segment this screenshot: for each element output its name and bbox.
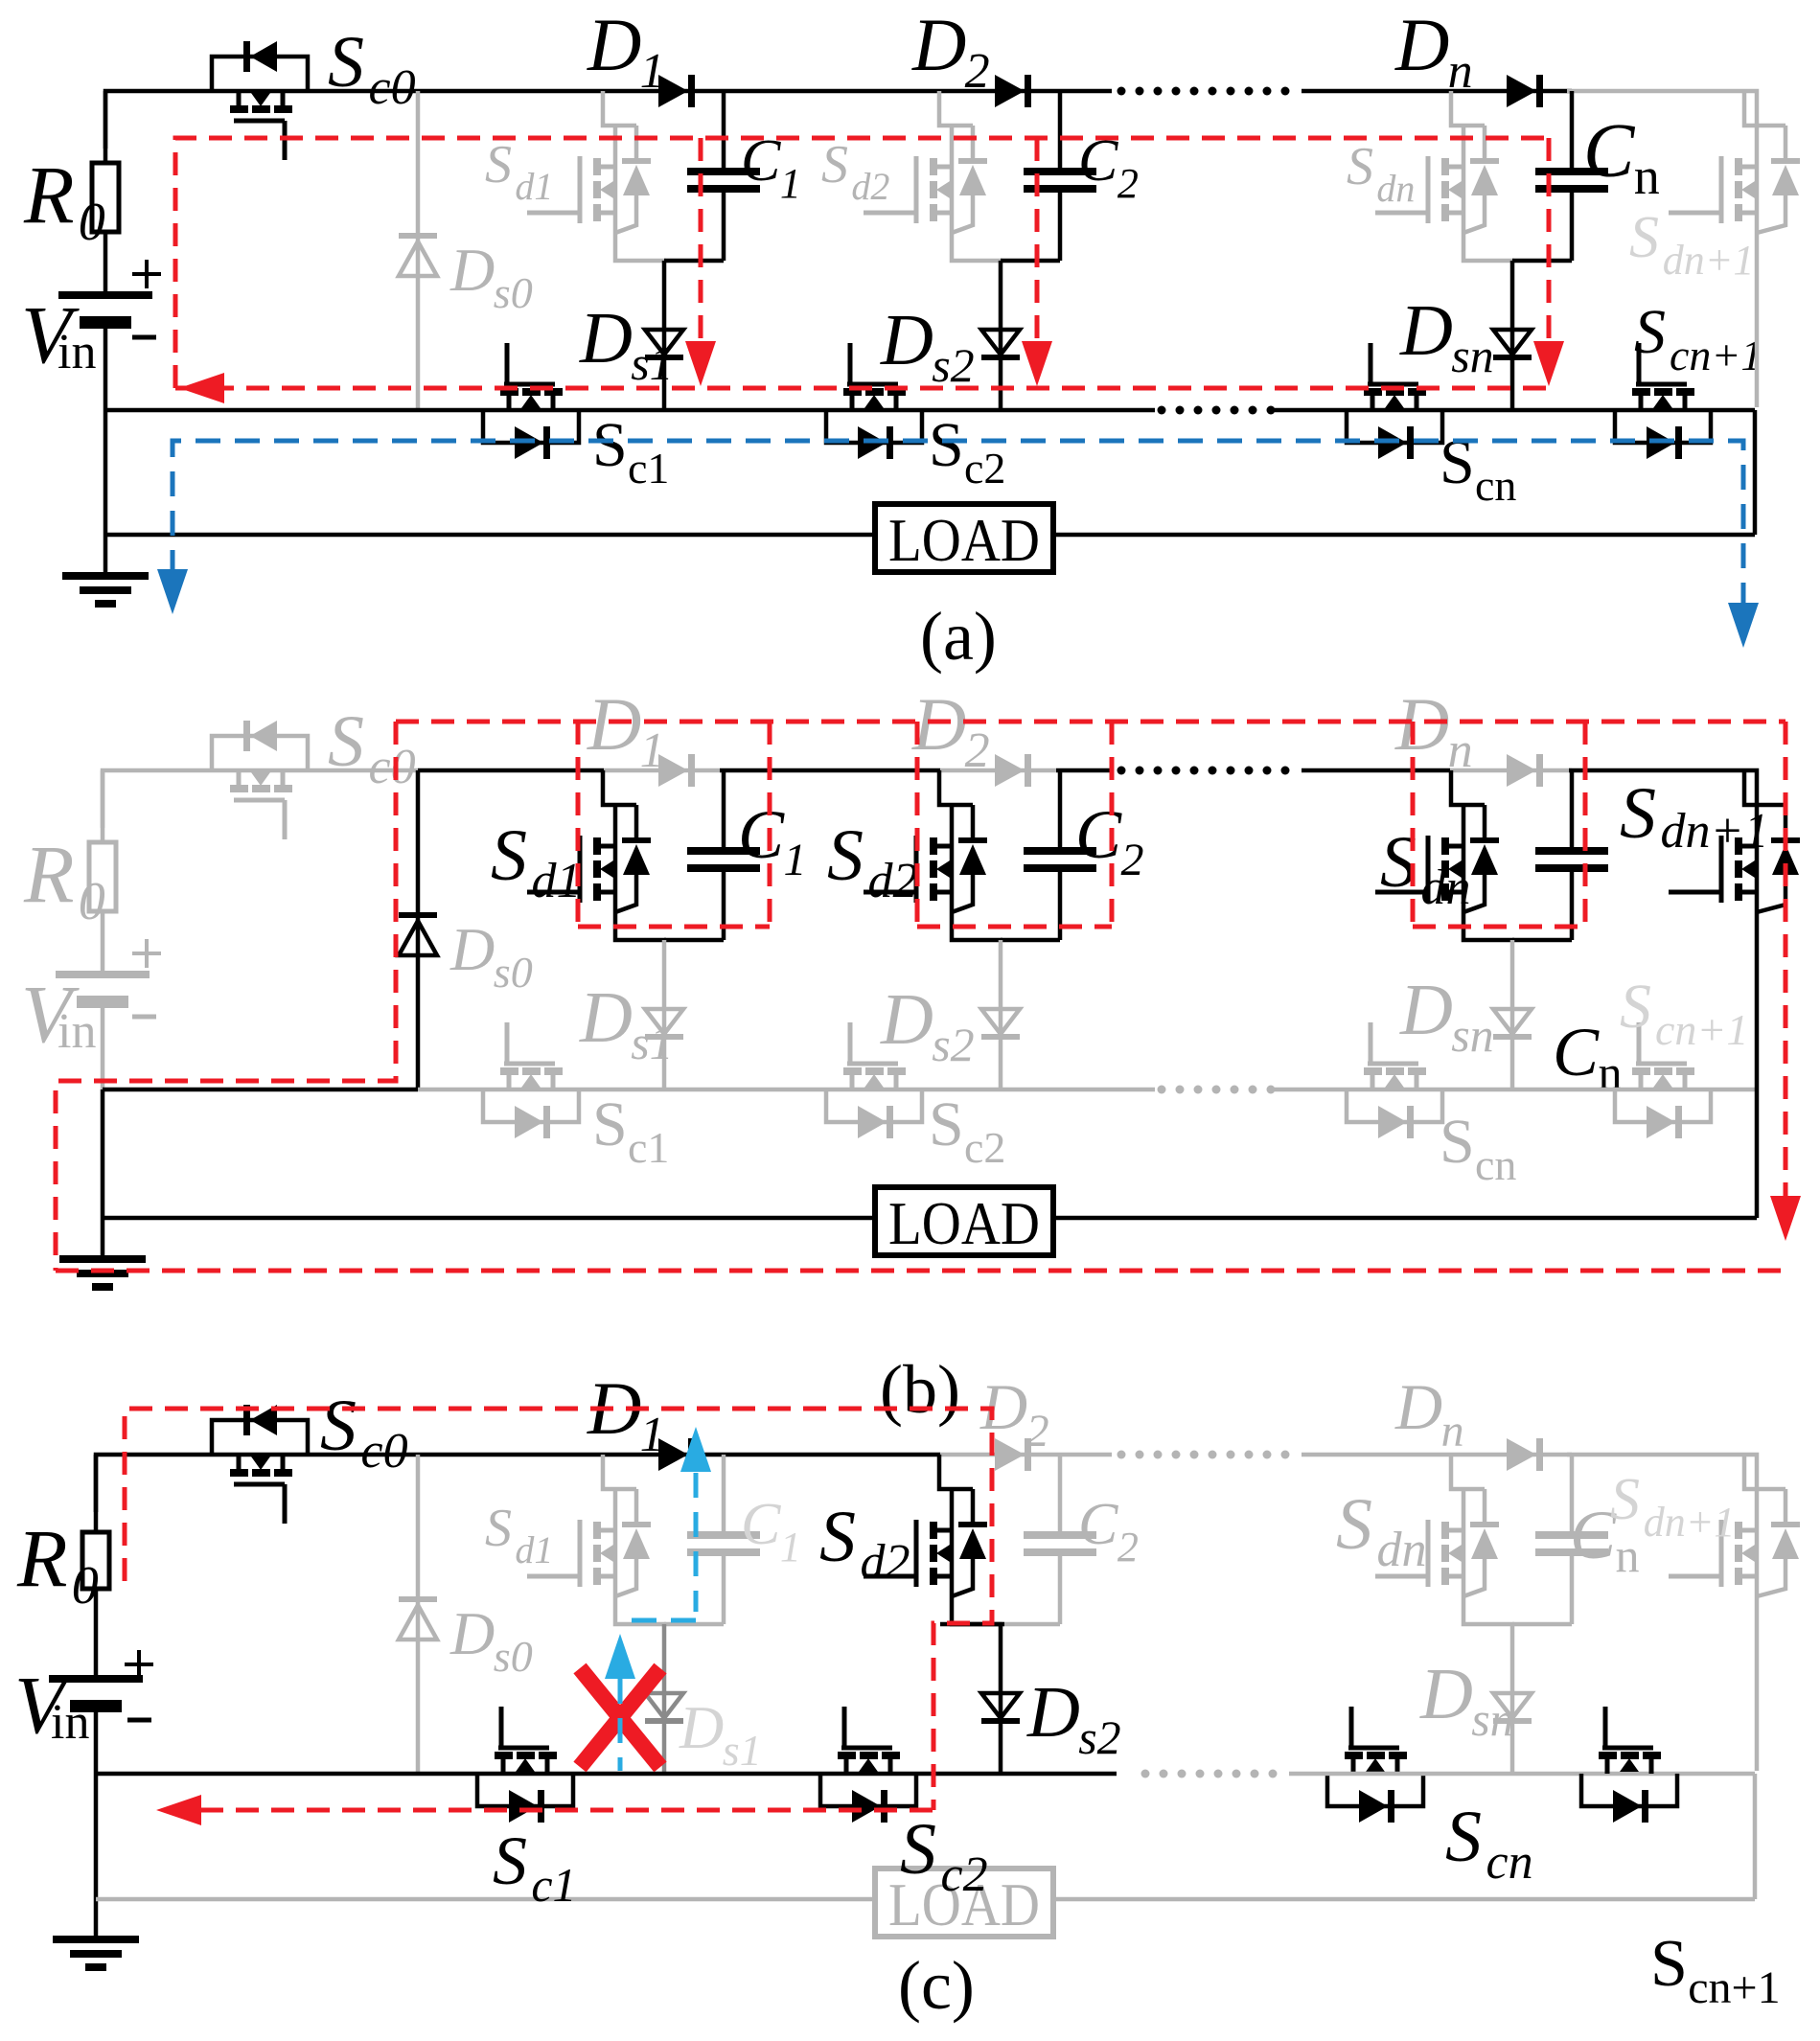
current path red (c loop)	[125, 1409, 992, 1810]
label Vin (b)	[21, 968, 96, 1060]
label minus (b)	[132, 1015, 156, 1020]
current path red arrow (b)	[1770, 1196, 1801, 1241]
svg-text:1: 1	[640, 44, 665, 99]
diode Ds2 (b)	[981, 940, 1020, 1089]
battery Vin (a)	[58, 291, 152, 410]
svg-text:S: S	[592, 1089, 628, 1159]
current path red left (b)	[56, 722, 396, 1271]
transistor Sd1 (c)	[527, 1455, 666, 1624]
transistor Scn (a)	[1347, 343, 1442, 459]
svg-text:D: D	[1399, 970, 1453, 1050]
svg-text:cn: cn	[1475, 1140, 1516, 1189]
svg-text:D: D	[880, 979, 933, 1060]
capacitor Cn (c)	[1535, 1455, 1608, 1624]
svg-text:d1: d1	[515, 1528, 553, 1571]
wire (a top rail gray extension)	[1567, 91, 1757, 127]
svg-text:S: S	[328, 22, 364, 103]
wire (b middle rail black)	[103, 1088, 418, 1092]
current path red bottom line (b)	[56, 1269, 1785, 1273]
transistor Sc2 (c)	[820, 1707, 916, 1823]
svg-text:S: S	[900, 1809, 936, 1890]
wire (c top rail)	[96, 1455, 940, 1512]
label plus (b)	[132, 939, 161, 968]
svg-text:0: 0	[79, 872, 105, 931]
current path red (a bottom)	[175, 386, 1549, 391]
capacitor C2 (b)	[1024, 770, 1096, 940]
label Scn+1 (b)	[1620, 972, 1748, 1054]
svg-text:1: 1	[640, 723, 665, 778]
label Ds1 (b)	[579, 977, 674, 1069]
wire (b top rail gray)	[103, 770, 418, 828]
svg-text:in: in	[51, 1695, 89, 1750]
transistor Sc1 (c)	[477, 1707, 573, 1823]
svg-text:S: S	[1634, 297, 1666, 367]
label Dsn (b)	[1399, 970, 1494, 1062]
svg-text:s1: s1	[723, 1726, 762, 1775]
current path blue (a)	[173, 441, 1743, 608]
current path red arrow left (a)	[179, 373, 224, 403]
label Ds0 (c)	[449, 1599, 533, 1681]
svg-text:D: D	[880, 300, 933, 380]
label R0 (c)	[16, 1512, 99, 1616]
svg-text:2: 2	[1117, 1524, 1139, 1571]
svg-text:D: D	[679, 1693, 724, 1761]
wire (c bottom rail)	[96, 1897, 1755, 1902]
transistor Scn (b)	[1347, 1022, 1442, 1138]
svg-text:n: n	[1448, 44, 1473, 99]
node dots (b middle rail)	[1158, 1086, 1276, 1094]
label Cn (c)	[1570, 1497, 1640, 1582]
label Cn (b)	[1553, 1014, 1623, 1099]
svg-text:R: R	[16, 1512, 68, 1604]
capacitor Cn (b)	[1535, 770, 1608, 940]
svg-text:dn+1: dn+1	[1644, 1499, 1736, 1546]
svg-text:S: S	[320, 1386, 357, 1466]
node dots (a middle rail)	[1158, 406, 1276, 415]
wire (c rail gray seg)	[1302, 1453, 1572, 1457]
diode D1 (b)	[658, 754, 695, 787]
transistor Sd1 (a)	[527, 91, 666, 261]
svg-text:2: 2	[965, 44, 990, 99]
diode Ds1 (c)	[645, 1624, 683, 1774]
current path red arrow (c)	[156, 1795, 201, 1825]
label Sdn (b)	[1380, 822, 1471, 915]
label Ds2 (b)	[880, 979, 975, 1071]
wire (b rail seg2)	[720, 768, 940, 773]
current path red bottom (c)	[200, 1808, 933, 1813]
label Scn (a)	[1440, 427, 1516, 510]
wire (b C2 bottom jog)	[1001, 938, 1060, 943]
label Dn (b)	[1394, 682, 1473, 778]
svg-text:n: n	[1616, 1528, 1640, 1582]
label Sc2 (c)	[900, 1809, 988, 1902]
current path cyan arrow2 (c)	[605, 1634, 635, 1679]
label minus (c)	[127, 1718, 151, 1723]
wire (a top rail)	[105, 91, 1112, 149]
svg-text:S: S	[929, 410, 964, 480]
wire (b top rail black)	[418, 768, 604, 773]
transistor Sc1 (a)	[483, 343, 579, 459]
svg-text:s1: s1	[631, 336, 673, 390]
transistor Scn (c)	[1327, 1707, 1423, 1823]
svg-text:dn: dn	[1377, 1523, 1427, 1577]
svg-text:LOAD: LOAD	[888, 506, 1040, 574]
wire (c rail gray mid)	[940, 1453, 1112, 1457]
label C2 (b)	[1075, 796, 1144, 885]
caption (a)	[920, 598, 997, 675]
svg-text:d1: d1	[532, 854, 582, 908]
svg-text:S: S	[821, 135, 848, 195]
svg-text:1: 1	[784, 835, 807, 885]
svg-text:D: D	[579, 298, 633, 378]
svg-text:C: C	[1583, 109, 1636, 194]
node dots (c top rail)	[1117, 1451, 1290, 1459]
diode Dsn (a)	[1493, 261, 1532, 410]
load box (a)	[875, 504, 1053, 574]
current path red bottom (b 1474)	[1413, 925, 1585, 929]
svg-text:S: S	[1440, 1107, 1475, 1177]
transistor Sd2 (c)	[864, 1455, 1002, 1624]
label D2 (c)	[979, 1370, 1049, 1456]
blocked cross (c)	[580, 1668, 660, 1767]
svg-text:S: S	[1629, 205, 1659, 270]
wire (b middle rail gray right)	[1275, 1088, 1755, 1092]
label Ds0 (b)	[449, 915, 533, 997]
svg-text:C: C	[1075, 796, 1122, 873]
wire (a middle rail right)	[1275, 408, 1755, 413]
diode Dn (c)	[1507, 1438, 1543, 1471]
svg-text:d1: d1	[515, 165, 553, 208]
label Scn+1 (a)	[1634, 297, 1762, 379]
label Ds2 (a)	[880, 300, 975, 392]
diode D2 (c)	[995, 1438, 1031, 1471]
transistor Sd1 (b)	[527, 770, 666, 940]
transistor Sc2 (a)	[826, 343, 922, 459]
transistor Sdn+1 (b)	[1669, 770, 1800, 1218]
svg-text:S: S	[328, 701, 364, 782]
diode Dsn (c)	[1493, 1624, 1532, 1774]
transistor Sc2 (b)	[826, 1022, 922, 1138]
svg-text:dn: dn	[1376, 167, 1415, 210]
svg-text:1: 1	[640, 1408, 665, 1462]
label Vin (a)	[21, 288, 96, 380]
svg-text:S: S	[1620, 972, 1651, 1042]
resistor R0 (c)	[82, 1455, 109, 1675]
svg-text:S: S	[1620, 773, 1656, 854]
svg-text:S: S	[485, 1499, 512, 1558]
svg-text:2: 2	[965, 723, 990, 778]
transistor Sc0 (a)	[212, 41, 308, 160]
resistor R0 (b)	[89, 770, 116, 971]
current path cyan lower (c)	[618, 1679, 623, 1771]
svg-text:c0: c0	[361, 1424, 408, 1479]
label Sdn (c)	[1336, 1484, 1427, 1577]
label C1 (a)	[741, 128, 801, 207]
svg-text:c2: c2	[964, 444, 1005, 493]
label Dsn (c)	[1419, 1654, 1514, 1746]
svg-text:s0: s0	[494, 268, 533, 317]
transistor Sc0 (c)	[212, 1405, 308, 1524]
svg-text:S: S	[819, 1497, 856, 1577]
wire (b rail D1 span)	[604, 768, 720, 773]
svg-text:c0: c0	[369, 60, 416, 115]
current path cyan arrow1 (c)	[680, 1427, 711, 1472]
label C2 (a)	[1078, 128, 1139, 207]
svg-text:D: D	[449, 236, 495, 304]
ground (b)	[59, 1255, 146, 1291]
wire (c middle rail gray)	[1289, 1772, 1755, 1777]
current path red bottom (b 603)	[578, 925, 770, 929]
capacitor C1 (a)	[687, 91, 760, 261]
svg-text:D: D	[449, 915, 495, 983]
svg-text:S: S	[929, 1089, 964, 1159]
svg-text:in: in	[58, 325, 96, 379]
wire (b bottom rail)	[103, 1216, 1757, 1221]
svg-text:c0: c0	[369, 740, 416, 794]
capacitor C2 (a)	[1024, 91, 1096, 261]
label Sdn+1 (a)	[1629, 205, 1754, 284]
battery Vin (b)	[56, 971, 150, 1089]
current path red vertical (b x=803)	[768, 722, 772, 927]
svg-text:s2: s2	[932, 1018, 974, 1071]
svg-text:2: 2	[1117, 160, 1139, 207]
svg-text:C: C	[738, 796, 785, 873]
svg-text:S: S	[1650, 1927, 1688, 2001]
wire (c left lower)	[94, 1774, 99, 1936]
diode D2 (a)	[995, 75, 1031, 107]
label Sd1 (c)	[485, 1499, 553, 1571]
current path red vertical (b x=1160)	[1110, 722, 1115, 927]
diode Ds0 (a)	[399, 91, 437, 410]
svg-text:S: S	[1336, 1484, 1372, 1565]
capacitor C2 (c)	[1024, 1455, 1096, 1624]
wire (b rail right)	[1569, 770, 1757, 807]
svg-text:2: 2	[1121, 835, 1144, 885]
svg-text:D: D	[1399, 290, 1453, 371]
svg-text:(c): (c)	[898, 1947, 975, 2024]
svg-text:dn+1: dn+1	[1663, 237, 1755, 284]
svg-text:D: D	[579, 977, 633, 1058]
current path red drop (a x=1082)	[1035, 138, 1040, 341]
label Sc0 (c)	[320, 1386, 408, 1479]
wire (a left lower)	[104, 410, 108, 572]
svg-text:n: n	[1448, 723, 1473, 778]
label minus (a)	[132, 335, 156, 340]
svg-text:cn+1: cn+1	[1655, 1005, 1748, 1054]
svg-text:S: S	[827, 815, 864, 896]
svg-text:s1: s1	[631, 1016, 673, 1069]
wire (b Cn bottom jog)	[1512, 938, 1572, 943]
battery Vin (c)	[49, 1675, 143, 1774]
wire (a C1 bottom jog)	[664, 259, 724, 264]
svg-text:cn+1: cn+1	[1670, 331, 1762, 379]
label R0 (b)	[23, 828, 105, 931]
wire (c C2 bottom jog)	[1001, 1622, 1060, 1627]
svg-text:D: D	[911, 3, 966, 86]
transistor Sdn (b)	[1375, 770, 1514, 940]
caption (b)	[880, 1351, 960, 1428]
current path red drop (a x=1616)	[1547, 138, 1552, 341]
label Dn (c)	[1394, 1370, 1464, 1456]
label Ds2 (c)	[1026, 1672, 1121, 1764]
wire (b C1 bottom jog)	[664, 938, 724, 943]
label Ds1 (a)	[579, 298, 674, 390]
transistor Sdn (c)	[1375, 1455, 1514, 1624]
svg-text:cn+1: cn+1	[1688, 1962, 1780, 2013]
svg-text:D: D	[1394, 1370, 1442, 1443]
diode Ds0 (c)	[399, 1455, 437, 1774]
svg-text:C: C	[1078, 1492, 1118, 1557]
current path red vertical (b x=957)	[915, 722, 920, 927]
svg-text:cn: cn	[1486, 1835, 1533, 1890]
svg-text:c2: c2	[941, 1847, 988, 1902]
svg-text:S: S	[592, 410, 628, 480]
wire (b middle rail gray)	[418, 1088, 1155, 1092]
svg-text:d2: d2	[868, 854, 918, 908]
current path red arrow (a x=731)	[685, 341, 716, 386]
label Sc1 (a)	[592, 410, 669, 493]
svg-text:S: S	[1445, 1797, 1482, 1877]
current path red right (b)	[1784, 722, 1788, 1196]
svg-text:S: S	[491, 815, 527, 896]
wire (a right vertical)	[1753, 410, 1758, 535]
wire (c rail gray right)	[1567, 1455, 1757, 1491]
svg-text:n: n	[1634, 148, 1660, 205]
label Ds0 (a)	[449, 236, 533, 317]
transistor Sdn+1 (a)	[1669, 91, 1800, 407]
wire (b rail seg4)	[1302, 768, 1450, 773]
wire (c Cn bottom jog)	[1512, 1622, 1572, 1627]
svg-text:C: C	[1553, 1014, 1600, 1090]
transistor Sd2 (a)	[864, 91, 1002, 261]
transistor Sdn (a)	[1375, 91, 1514, 261]
svg-text:c1: c1	[628, 444, 669, 493]
label Ds1 (c)	[679, 1693, 762, 1775]
label Sd1 (a)	[485, 135, 553, 208]
svg-text:0: 0	[79, 193, 105, 252]
svg-text:d2: d2	[851, 165, 889, 208]
wire (c middle rail black)	[96, 1772, 1117, 1777]
wire (b rail D2 span)	[940, 768, 1056, 773]
transistor Sdn+1 (c)	[1669, 1455, 1800, 1771]
label D2 (b)	[911, 682, 990, 778]
label Sd1 (b)	[491, 815, 582, 908]
svg-text:n: n	[1441, 1406, 1464, 1456]
label Dn (a)	[1394, 3, 1473, 99]
svg-text:c1: c1	[531, 1858, 576, 1912]
svg-text:sn: sn	[1451, 329, 1493, 382]
label Sd2 (a)	[821, 135, 889, 208]
label R0 (a)	[23, 149, 105, 252]
ground (a)	[62, 572, 149, 608]
label Sc1 (c)	[493, 1823, 577, 1912]
diode Ds2 (a)	[981, 261, 1020, 410]
svg-text:R: R	[23, 828, 75, 920]
label Sc2 (b)	[929, 1089, 1005, 1172]
label D2 (a)	[911, 3, 990, 99]
svg-text:s2: s2	[932, 338, 974, 392]
diode Dn (b)	[1507, 754, 1543, 787]
svg-text:s0: s0	[494, 948, 533, 997]
diode D2 (b)	[995, 754, 1031, 787]
label Sc1 (b)	[592, 1089, 669, 1172]
svg-text:c2: c2	[964, 1123, 1005, 1172]
capacitor C1 (c)	[687, 1455, 760, 1624]
label Sc0 (a)	[328, 22, 416, 115]
node dots (b top rail)	[1117, 767, 1290, 775]
load box (b)	[875, 1187, 1053, 1257]
transistor Sc0 (b)	[212, 721, 308, 839]
svg-text:D: D	[449, 1599, 495, 1667]
svg-text:2: 2	[1026, 1406, 1049, 1456]
wire (c C1 bottom jog)	[664, 1622, 724, 1627]
diode Ds2 (c)	[981, 1624, 1020, 1774]
current path red vertical (b x=603)	[576, 722, 581, 927]
svg-text:sn: sn	[1451, 1008, 1493, 1062]
label D1 (a)	[587, 3, 665, 99]
svg-text:D: D	[1026, 1672, 1080, 1753]
label Scn+1 (c)	[1650, 1927, 1781, 2013]
svg-text:(b): (b)	[880, 1351, 960, 1428]
label C1 (b)	[738, 796, 807, 885]
label D1 (c)	[587, 1366, 665, 1462]
svg-text:dn+1: dn+1	[1661, 804, 1769, 859]
svg-text:1: 1	[780, 1524, 801, 1571]
wire (b rail Dn span)	[1450, 768, 1572, 773]
current path red drop (a x=731)	[699, 138, 703, 341]
current path blue arrow right (a)	[1728, 603, 1759, 648]
label Scn (b)	[1440, 1107, 1516, 1189]
label Sd2 (b)	[827, 815, 918, 908]
transistor Sc1 (b)	[483, 1022, 579, 1138]
wire (a Cn bottom jog)	[1512, 259, 1572, 264]
label Cn (a)	[1583, 109, 1660, 205]
node dots (c middle rail)	[1141, 1770, 1278, 1778]
current path blue arrow left (a)	[157, 569, 188, 614]
diode D1 (a)	[658, 75, 695, 107]
diode Ds1 (b)	[645, 940, 683, 1089]
label Sc0 (b)	[328, 701, 416, 794]
current path cyan up (c)	[628, 1473, 696, 1620]
label Scn (c)	[1445, 1797, 1533, 1890]
label Sc2 (a)	[929, 410, 1005, 493]
label Sdn+1 (b)	[1620, 773, 1769, 859]
svg-text:cn: cn	[1475, 461, 1516, 510]
label plus (a)	[132, 260, 161, 288]
svg-text:0: 0	[72, 1556, 99, 1616]
svg-text:dn: dn	[1421, 860, 1471, 915]
svg-text:1: 1	[780, 160, 801, 207]
svg-text:d2: d2	[861, 1535, 910, 1590]
transistor Scn+1 (c)	[1581, 1707, 1677, 1823]
diode Dsn (b)	[1493, 940, 1532, 1089]
svg-text:(a): (a)	[920, 598, 997, 675]
capacitor C1 (b)	[687, 770, 760, 940]
svg-text:D: D	[1394, 3, 1449, 86]
svg-text:S: S	[493, 1823, 527, 1899]
svg-text:LOAD: LOAD	[888, 1189, 1040, 1257]
diode D1 (c)	[658, 1438, 695, 1471]
current path red arrow (a x=1616)	[1533, 341, 1564, 386]
diode Dn (a)	[1507, 75, 1543, 107]
wire (a C2 bottom jog)	[1001, 259, 1060, 264]
current path red (a loop)	[175, 138, 1549, 388]
diode Ds1 (a)	[645, 261, 683, 410]
label Dsn (a)	[1399, 290, 1494, 382]
svg-text:C: C	[741, 1492, 781, 1557]
wire (c right vertical)	[1753, 1774, 1758, 1899]
svg-text:sn: sn	[1471, 1692, 1513, 1746]
